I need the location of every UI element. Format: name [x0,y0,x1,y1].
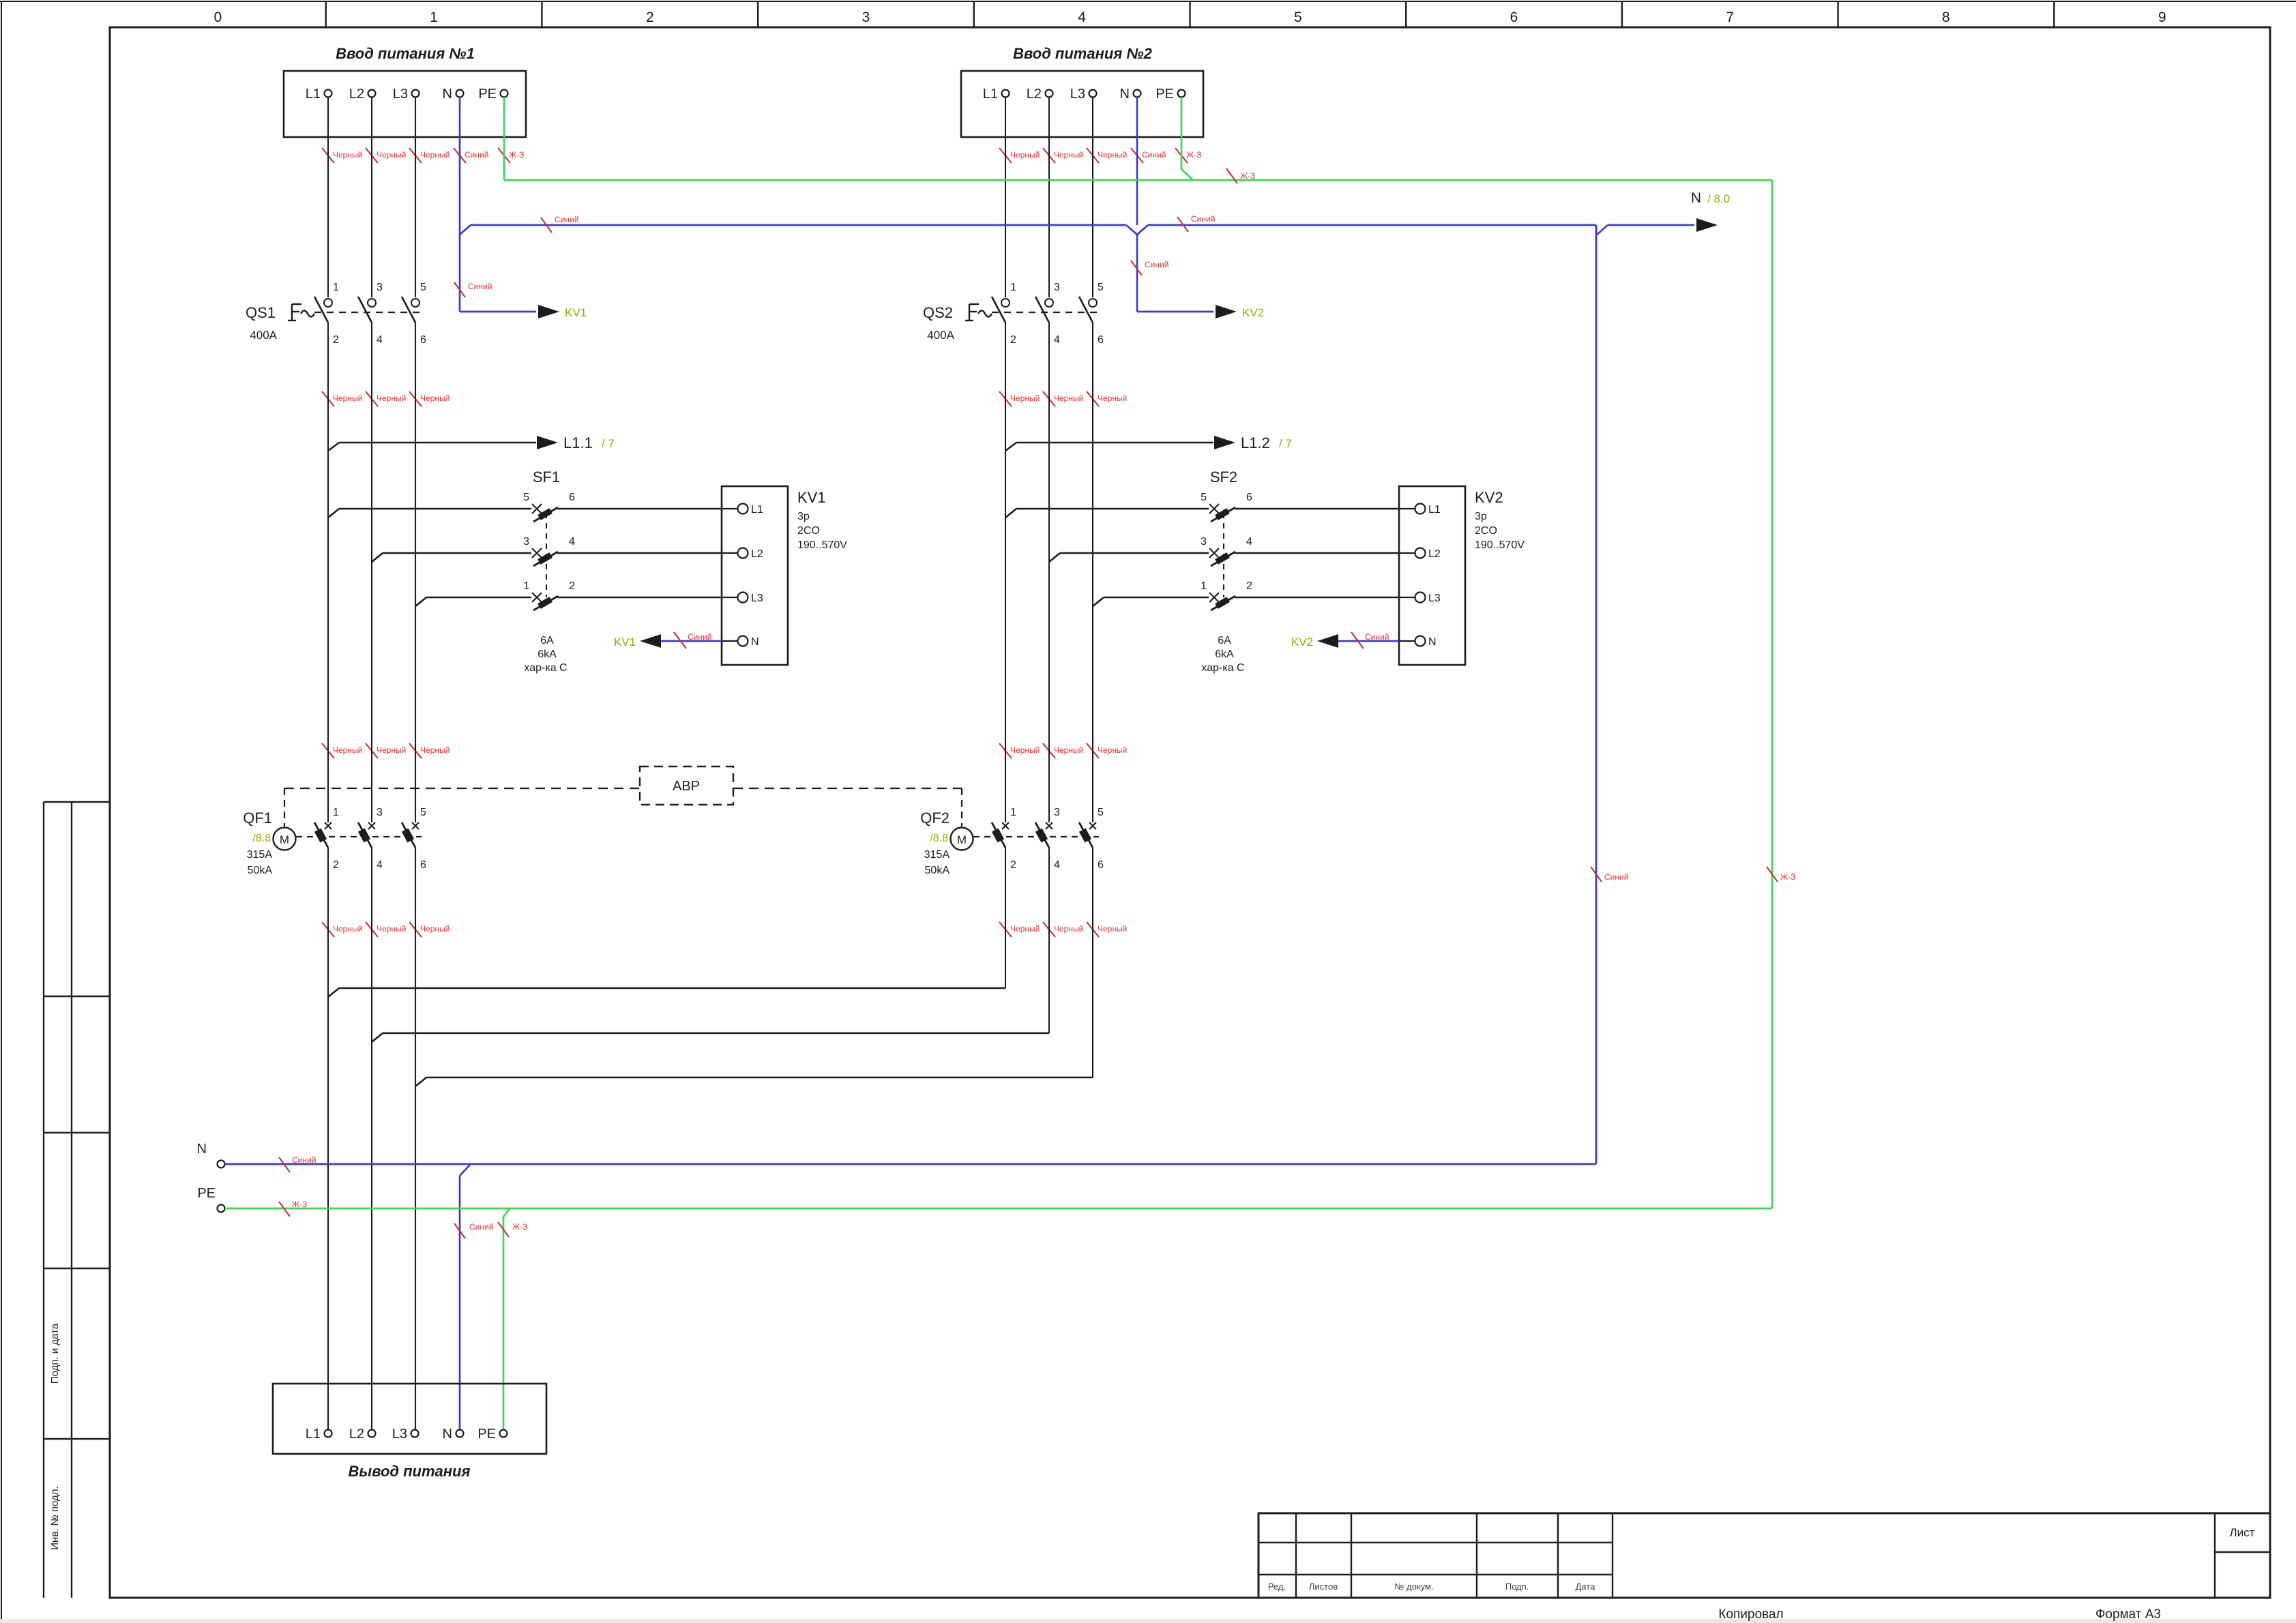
svg-text:Синий: Синий [555,215,578,224]
svg-text:Черный: Черный [1010,924,1040,934]
svg-text:/ 7: / 7 [602,437,615,450]
footer Format A3 [2095,1607,2161,1622]
svg-text:Черный: Черный [1054,924,1083,934]
svg-text:2CO: 2CO [1475,525,1497,537]
label L1.2 [1241,434,1270,451]
svg-text:Формат А3: Формат А3 [2095,1607,2161,1622]
svg-text:9: 9 [2158,10,2166,25]
svg-text:Копировал: Копировал [1718,1607,1783,1622]
svg-text:1: 1 [430,10,438,25]
svg-text:L3: L3 [751,593,763,604]
label /8.0 of exit arrow [1707,192,1730,205]
wire color labels row D below QF2 [999,922,1127,937]
svg-text:3: 3 [377,282,383,293]
svg-text:Черный: Черный [420,924,450,934]
svg-text:3: 3 [862,10,870,25]
wire L3 phase column 1 [415,137,416,1429]
wire color slash Siniy on bottom neutral bus [279,1155,316,1172]
KV1 neutral tap arrow (blue, to left) [640,634,722,648]
left label Podp i data [49,1323,61,1384]
svg-text:2: 2 [1010,334,1016,346]
svg-text:/8.8: /8.8 [930,833,948,844]
wire color labels row A below input box 2 [999,148,1201,163]
AVR dashed drop to QF2 motor [961,788,962,827]
input terminal box 2 (Vvod pitaniya No2) [961,45,1203,137]
svg-text:SF1: SF1 [533,468,560,486]
svg-text:Черный: Черный [333,745,362,755]
svg-text:/ 8.0: / 8.0 [1707,192,1730,205]
svg-text:5: 5 [523,492,529,503]
svg-text:6kA: 6kA [538,649,557,660]
svg-text:5: 5 [1098,282,1104,293]
svg-text:Синий: Синий [469,1222,493,1232]
wire color labels row D below QF1 [322,922,450,937]
svg-text:L1: L1 [751,504,763,516]
svg-text:L2: L2 [1027,87,1042,102]
neutral bus exit arrow N /8.0 [1596,218,1718,235]
svg-text:Черный: Черный [333,924,362,934]
svg-text:Синий: Синий [465,150,488,160]
svg-text:M: M [957,833,967,846]
title block List label [2230,1526,2255,1539]
svg-text:Черный: Черный [1010,745,1040,755]
svg-text:6: 6 [1098,859,1104,871]
svg-text:0: 0 [214,10,222,25]
svg-text:L2: L2 [751,548,763,560]
svg-text:1: 1 [333,282,339,293]
svg-text:L2: L2 [349,1427,364,1442]
wire color slash Siniy on KV1 neutral tap [674,632,711,649]
svg-text:4: 4 [1246,536,1252,548]
voltage relay KV2 box [1399,486,1465,665]
svg-text:6: 6 [569,492,575,503]
circuit breaker SF1 6A [328,468,722,674]
wire color slash Siniy on neutral riser [1591,867,1628,882]
svg-text:Ввод питания №2: Ввод питания №2 [1013,45,1152,62]
svg-text:5: 5 [420,282,426,293]
left attribute boxes [44,802,110,1598]
svg-text:Черный: Черный [1054,393,1083,403]
svg-text:Черный: Черный [1054,150,1083,160]
svg-text:Ж-З: Ж-З [512,1222,527,1232]
wire L1 phase column 1 [327,137,329,1429]
svg-text:4: 4 [1054,859,1060,871]
svg-text:QS2: QS2 [923,304,953,321]
svg-text:хар-ка С: хар-ка С [1201,662,1244,674]
svg-text:L2: L2 [349,87,364,102]
svg-text:3p: 3p [1475,511,1487,522]
wire L3 phase column 2 [1092,137,1093,1077]
svg-text:Подп. и дата: Подп. и дата [49,1323,61,1384]
svg-text:Синий: Синий [1145,260,1168,269]
svg-text:Ред.: Ред. [1268,1581,1286,1592]
wire color labels row A below input box 1 [322,148,524,163]
svg-text:Черный: Черный [1098,924,1127,934]
title block [1259,1513,2270,1598]
wire N input 2 vertical (blue) [1136,137,1138,312]
svg-text:N: N [197,1142,207,1157]
svg-text:KV1: KV1 [565,306,587,319]
svg-text:Черный: Черный [1054,745,1083,755]
svg-text:6A: 6A [1218,635,1231,646]
svg-text:Черный: Черный [333,393,362,403]
svg-text:PE: PE [477,1427,496,1442]
svg-text:Ж-З: Ж-З [292,1200,307,1209]
wire N input 1 branch jog to bus [460,225,471,235]
svg-text:Черный: Черный [1098,745,1127,755]
wire KV1 voltage tap (blue) with arrow [460,305,559,318]
wire color slash Siniy on neutral bus left [541,215,578,233]
svg-text:/ 7: / 7 [1279,437,1292,450]
branch L1.2 arrow [1005,436,1235,451]
svg-text:1: 1 [523,580,529,592]
voltage relay KV1 labels [797,489,847,551]
output terminal box (Vyvod pitaniya) [273,1384,546,1480]
svg-text:6: 6 [420,334,426,346]
svg-text:N: N [1428,636,1437,648]
wire color labels row C above QF1 [322,743,450,758]
svg-text:Черный: Черный [1098,393,1127,403]
svg-text:4: 4 [569,536,575,548]
svg-text:KV1: KV1 [797,489,826,506]
svg-text:3: 3 [1054,807,1060,818]
svg-text:4: 4 [377,334,383,346]
interconnect wire QF1-QF2 phase L2 [372,1033,1049,1042]
wire L2 phase column 2 [1048,137,1050,1033]
label KV1 of left tap [614,636,636,649]
voltage relay KV2 labels [1475,489,1525,551]
label KV2 of left tap [1291,636,1313,649]
circuit breaker SF2 6A [1005,468,1399,674]
voltage relay KV1 box [722,486,788,665]
svg-text:4: 4 [1054,334,1060,346]
neutral bus horizontal y=330 (blue) [471,225,1596,235]
svg-text:Черный: Черный [420,393,450,403]
svg-text:400A: 400A [927,329,954,342]
svg-text:2: 2 [1010,859,1016,871]
svg-text:L3: L3 [1070,87,1085,102]
label /7 of L1.2 [1279,437,1292,450]
svg-text:Черный: Черный [377,745,406,755]
svg-text:315A: 315A [924,849,950,861]
svg-text:Черный: Черный [377,393,406,403]
AVR dashed drop to QF1 motor [284,788,285,827]
svg-text:Ж-З: Ж-З [1240,171,1255,181]
svg-text:Черный: Черный [420,150,450,160]
svg-text:Черный: Черный [377,150,406,160]
svg-text:QF1: QF1 [243,809,272,827]
wire color slash Siniy on KV2 riser [1131,260,1168,276]
wire color slash Zh-Z on bottom PE bus [279,1200,307,1217]
svg-text:5: 5 [420,807,426,818]
svg-text:Синий: Синий [1191,214,1215,224]
svg-text:6A: 6A [540,635,554,646]
svg-text:Ж-З: Ж-З [1186,150,1201,160]
svg-text:6: 6 [1098,334,1104,346]
wire color slash Zh-Z on PE bus [1226,168,1255,183]
wire L2 phase column 1 [371,137,372,1429]
footer Kopiroval [1718,1607,1783,1622]
svg-text:2: 2 [646,10,654,25]
svg-text:хар-ка С: хар-ка С [524,662,567,674]
svg-text:QS1: QS1 [246,304,276,321]
neutral bottom bus y=1707 (blue) [225,1163,1596,1165]
svg-text:№ докум.: № докум. [1394,1581,1433,1592]
left label Inv N podl [49,1486,61,1549]
svg-text:1: 1 [333,807,339,818]
label /7 of L1.1 [602,437,615,450]
wire KV2 voltage tap (blue) with arrow [1137,305,1237,318]
svg-text:3: 3 [523,536,529,548]
svg-text:50kA: 50kA [925,865,950,876]
svg-text:2: 2 [1246,580,1252,592]
PE riser vertical x=2598 (green) [1771,180,1773,1208]
motorized breaker QF2 315A [920,807,1104,876]
svg-text:1: 1 [1010,807,1016,818]
svg-text:6: 6 [1246,492,1252,503]
svg-text:Лист: Лист [2230,1526,2255,1539]
ruler band separators and digits [214,1,2166,27]
svg-text:Черный: Черный [420,745,450,755]
svg-text:6kA: 6kA [1215,649,1234,660]
svg-text:7: 7 [1726,10,1734,25]
neutral drop jog to output box (blue) [460,1164,471,1429]
svg-text:3: 3 [1201,536,1207,548]
svg-text:1: 1 [1010,282,1016,293]
AVR control box (dashed) [640,766,733,805]
svg-text:6: 6 [1510,10,1518,25]
AVR dashed link right [733,788,962,789]
svg-text:2CO: 2CO [797,525,820,537]
wire color slash Siniy on KV1 tap riser [454,282,492,297]
wire PE input 2 vertical with jog (green) [1181,137,1193,180]
svg-text:/8.8: /8.8 [252,833,271,844]
node N terminal [197,1142,225,1168]
svg-text:Синий: Синий [292,1155,316,1165]
svg-text:L1: L1 [1428,504,1441,516]
disconnector QS1 400A [246,282,426,346]
label L1.1 [563,434,593,451]
svg-text:KV1: KV1 [614,636,636,649]
svg-text:1: 1 [1201,580,1207,592]
svg-text:3: 3 [377,807,383,818]
svg-text:N: N [1691,190,1701,206]
svg-text:5: 5 [1098,807,1104,818]
svg-text:L1: L1 [983,87,998,102]
svg-text:190..570V: 190..570V [1475,539,1525,551]
svg-text:L3: L3 [393,87,408,102]
svg-text:Ж-З: Ж-З [509,150,524,160]
wire PE input 1 vertical (green) [503,137,505,180]
svg-text:Синий: Синий [1365,632,1389,642]
wire color labels row B below QS2 [999,391,1127,406]
svg-text:N: N [751,636,759,648]
wire N input 1 vertical (blue) [459,137,461,312]
label KV1 tap [565,306,587,319]
svg-text:M: M [280,833,289,846]
svg-text:Синий: Синий [1604,872,1628,882]
label N of exit arrow [1691,190,1701,206]
svg-text:Листов: Листов [1309,1581,1338,1592]
input terminal box 1 (Vvod pitaniya No1) [284,45,526,137]
svg-text:3: 3 [1054,282,1060,293]
svg-text:L3: L3 [1428,593,1441,604]
svg-text:KV2: KV2 [1475,489,1503,506]
svg-text:6: 6 [420,859,426,871]
svg-text:QF2: QF2 [920,809,950,827]
svg-text:4: 4 [1078,10,1086,25]
svg-text:Синий: Синий [688,632,711,642]
svg-text:Черный: Черный [1098,150,1127,160]
svg-text:2: 2 [569,580,575,592]
svg-text:L1: L1 [306,87,321,102]
svg-text:5: 5 [1201,492,1207,503]
svg-text:KV2: KV2 [1291,636,1313,649]
node PE terminal [197,1186,224,1212]
wire color labels row B below QS1 [322,391,450,406]
motorized breaker QF1 315A [243,807,426,876]
svg-text:Синий: Синий [468,282,492,291]
svg-text:Черный: Черный [333,150,362,160]
svg-text:2: 2 [333,859,339,871]
wire color slash Siniy on neutral bus right [1177,214,1215,232]
svg-text:400A: 400A [250,329,277,342]
AVR dashed link left [284,788,640,789]
svg-text:Ж-З: Ж-З [1780,872,1795,882]
svg-text:SF2: SF2 [1210,468,1237,486]
svg-text:PE: PE [197,1186,216,1201]
svg-text:L1.1: L1.1 [563,434,593,451]
PE bus horizontal y=264 (green) [504,179,1772,181]
interconnect wire QF1-QF2 phase L3 [415,1077,1093,1086]
wire color slash Siniy on neutral drop [454,1222,493,1238]
svg-text:Черный: Черный [377,924,406,934]
sheet bottom gray strip [0,1619,2296,1623]
svg-text:KV2: KV2 [1242,306,1264,319]
svg-text:8: 8 [1942,10,1950,25]
svg-text:50kA: 50kA [248,865,273,876]
svg-text:N: N [1120,87,1130,102]
disconnector QS2 400A [923,282,1104,346]
svg-text:АВР: АВР [673,779,700,794]
svg-text:L1.2: L1.2 [1241,434,1270,451]
svg-text:PE: PE [1156,87,1174,102]
wire L1 phase column 2 [1005,137,1006,988]
svg-text:Ввод питания №1: Ввод питания №1 [336,45,475,62]
wire color slash Zh-Z on PE drop [498,1222,527,1237]
svg-text:L3: L3 [392,1427,407,1442]
svg-text:2: 2 [333,334,339,346]
title block row labels [1268,1581,1595,1592]
wire color labels row C above QF2 [999,743,1127,758]
svg-text:5: 5 [1294,10,1302,25]
svg-text:4: 4 [377,859,383,871]
branch L1.1 arrow [328,436,558,451]
PE drop jog to output box (green) [503,1208,510,1429]
sheet outer border top [0,1,2296,2]
svg-text:Черный: Черный [1010,150,1040,160]
wire color slash Zh-Z on PE riser [1767,867,1795,882]
svg-text:315A: 315A [247,849,273,861]
svg-text:L1: L1 [306,1427,321,1442]
svg-text:Подп.: Подп. [1505,1581,1529,1592]
svg-text:Инв. № подл.: Инв. № подл. [49,1486,61,1549]
svg-text:190..570V: 190..570V [797,539,847,551]
PE bottom bus y=1772 (green) [225,1208,1772,1210]
svg-text:Дата: Дата [1576,1581,1596,1592]
neutral riser vertical x=2340 (blue) [1595,225,1598,1164]
svg-text:Вывод питания: Вывод питания [349,1463,471,1480]
svg-text:L2: L2 [1428,548,1441,560]
KV2 neutral tap arrow (blue, to left) [1317,634,1399,648]
label KV2 tap [1242,306,1264,319]
sheet outer border left [1,1,2,1619]
svg-text:PE: PE [478,87,497,102]
svg-text:N: N [443,87,452,102]
svg-text:3p: 3p [797,511,810,522]
svg-text:Черный: Черный [1010,393,1040,403]
svg-text:N: N [443,1427,452,1442]
wire color slash Siniy on KV2 neutral tap [1351,632,1389,649]
svg-text:Синий: Синий [1142,150,1166,160]
interconnect wire QF1-QF2 phase L1 [328,988,1005,997]
